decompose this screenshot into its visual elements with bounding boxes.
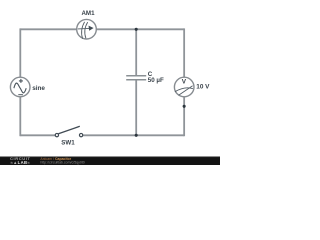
switch SW1 [55,126,83,136]
ammeter AM1 [77,19,97,39]
footer bar [0,156,220,165]
wire right vertical upper [183,28,185,77]
wire bottom-left horizontal (to switch) [20,134,55,136]
svg-text:10 V: 10 V [196,84,210,91]
svg-text:sine: sine [32,85,45,92]
wire top-right horizontal (ammeter to top-right corner) [96,28,184,30]
svg-text:50 µF: 50 µF [148,77,164,84]
svg-text:≈▲LAB≈: ≈▲LAB≈ [11,160,31,165]
node junction dot top (capacitor/top wire) [135,28,138,31]
footer CircuitLab logo [10,156,31,165]
voltage source V1 (sine) [10,77,30,97]
wire left vertical lower [19,97,21,137]
voltmeter V [174,77,194,97]
node junction dot bottom (capacitor/bottom wire) [135,134,138,137]
capacitor C1 [126,76,146,80]
svg-text:AM1: AM1 [81,10,95,17]
wire right vertical lower (through junction) [183,97,185,137]
wire top-left horizontal (to ammeter) [20,28,77,30]
wire bottom-right horizontal (switch to bottom-right corner) [83,134,184,136]
svg-text:SW1: SW1 [61,140,75,147]
wire capacitor stem lower [135,80,137,135]
wire left vertical upper [19,28,21,77]
wire capacitor stem upper [135,29,137,75]
svg-text:http://circuitlab.com/c/5qy0t0: http://circuitlab.com/c/5qy0t0 [40,160,84,164]
svg-text:V: V [182,79,187,86]
node junction dot below voltmeter [183,105,186,108]
